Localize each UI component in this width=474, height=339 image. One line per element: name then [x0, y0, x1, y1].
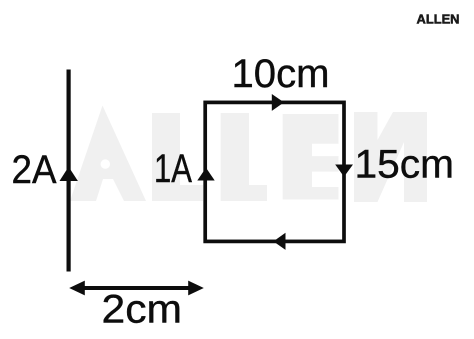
svg-text:ALLEN: ALLEN — [417, 12, 460, 27]
watermark letter E — [283, 114, 339, 200]
wire (straight vertical conductor) — [66, 70, 70, 272]
svg-text:15cm: 15cm — [355, 142, 455, 186]
watermark letter L2 — [221, 113, 267, 201]
svg-text:2A: 2A — [12, 148, 57, 192]
svg-text:1A: 1A — [154, 147, 192, 191]
watermark letter N — [354, 112, 378, 202]
arrowhead right side (downward) — [335, 165, 353, 177]
arrowhead bottom side (leftward) — [273, 233, 285, 250]
watermark letter L1 — [152, 113, 203, 201]
arrowhead left side (upward) — [197, 168, 214, 181]
arrowhead on wire (current 2A upward) — [60, 167, 78, 181]
watermark letter A — [70, 106, 146, 202]
dimension arrow 2cm (double headed) — [82, 286, 191, 290]
rectangular loop — [205, 102, 344, 241]
svg-text:2cm: 2cm — [102, 288, 183, 332]
arrowhead top side (rightward) — [272, 94, 284, 111]
svg-text:10cm: 10cm — [232, 52, 330, 96]
